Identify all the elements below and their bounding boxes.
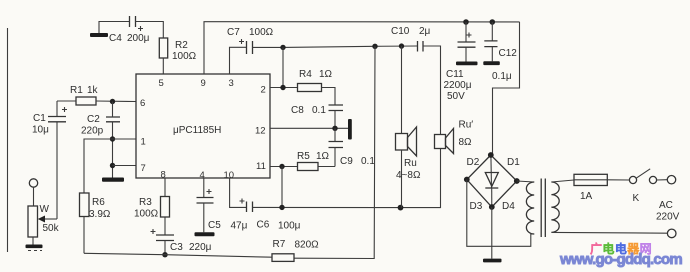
svg-text:100Ω: 100Ω — [249, 27, 274, 38]
capacitor C2 220p — [81, 102, 120, 178]
svg-text:R5: R5 — [297, 151, 310, 162]
svg-text:C9: C9 — [340, 156, 353, 167]
svg-text:1Ω: 1Ω — [316, 151, 330, 162]
resistor R5 1ohm — [297, 151, 335, 171]
svg-text:0.1: 0.1 — [312, 105, 326, 116]
wire — [423, 46, 441, 135]
wire — [57, 100, 76, 102]
ground — [483, 259, 502, 263]
node junction — [280, 85, 285, 90]
svg-text:4~8Ω: 4~8Ω — [396, 170, 421, 181]
svg-text:D4: D4 — [502, 201, 515, 212]
wire — [33, 187, 35, 206]
node junction pin1 — [110, 136, 115, 141]
resistor R7 820ohm — [272, 239, 319, 261]
wire — [281, 167, 283, 208]
node junction — [464, 177, 470, 183]
svg-text:820Ω: 820Ω — [295, 240, 320, 251]
capacitor C8 0.1 — [291, 105, 343, 128]
svg-text:D1: D1 — [507, 157, 520, 168]
svg-text:C7: C7 — [227, 27, 240, 38]
node junction — [489, 204, 495, 210]
svg-text:9: 9 — [201, 78, 206, 89]
capacitor C12 0.1u — [483, 22, 517, 82]
svg-text:12: 12 — [255, 126, 266, 137]
capacitor C10 2u — [391, 26, 431, 52]
resistor R4 1ohm — [298, 69, 333, 92]
ground bar pin12 — [348, 119, 352, 140]
speaker Ru 4~8ohm — [396, 127, 421, 208]
ground — [195, 232, 215, 236]
svg-text:C1: C1 — [33, 113, 46, 124]
capacitor C3 220u — [151, 217, 212, 255]
svg-text:C4: C4 — [109, 33, 122, 44]
svg-text:AC: AC — [659, 200, 673, 211]
wire pin2 — [270, 87, 298, 89]
resistor R6 3.9ohm — [80, 193, 111, 220]
wire — [491, 207, 493, 259]
node junction — [372, 44, 377, 49]
wire bridge left to secondary bottom — [467, 180, 531, 247]
svg-text:220μ: 220μ — [189, 242, 212, 253]
svg-text:D2: D2 — [467, 157, 480, 168]
svg-text:100Ω: 100Ω — [134, 209, 159, 220]
node AC terminal bottom — [667, 229, 676, 238]
diode bridge D1-D4 — [467, 155, 521, 212]
wire feedback vertical — [294, 46, 375, 258]
svg-text:2200μ: 2200μ — [444, 80, 472, 91]
node junction — [488, 152, 494, 158]
node AC terminal top — [656, 176, 680, 223]
wire pin11 — [270, 166, 298, 168]
wire pin7 — [113, 165, 137, 167]
capacitor C4 200u — [109, 16, 150, 44]
node junction — [332, 126, 337, 131]
capacitor C5 47u — [197, 189, 248, 232]
svg-text:1Ω: 1Ω — [319, 69, 333, 80]
svg-text:Ru: Ru — [404, 158, 417, 169]
wire pin10 — [230, 178, 247, 207]
svg-text:11: 11 — [256, 161, 266, 172]
svg-text:μPC1185H: μPC1185H — [173, 125, 221, 136]
svg-text:100μ: 100μ — [278, 221, 301, 232]
wire — [83, 217, 85, 254]
capacitor C9 0.1 — [329, 128, 376, 167]
resistor R3 100ohm — [134, 197, 170, 220]
node junction — [279, 164, 284, 169]
svg-text:6: 6 — [140, 98, 145, 109]
svg-text:5: 5 — [159, 78, 164, 89]
svg-text:50V: 50V — [447, 91, 465, 102]
svg-text:100Ω: 100Ω — [172, 51, 197, 62]
wire output node — [253, 46, 418, 47]
resistor R2 100ohm — [159, 38, 196, 62]
svg-text:0.1μ: 0.1μ — [492, 71, 512, 82]
wire output to speakers — [253, 149, 441, 208]
node junction — [280, 45, 285, 50]
svg-text:50k: 50k — [43, 223, 60, 234]
wire pin1 — [84, 139, 136, 193]
capacitor C1 10u — [32, 101, 67, 136]
wire pin12 — [270, 127, 348, 129]
watermark text — [590, 240, 652, 257]
svg-text:C8: C8 — [291, 105, 304, 116]
svg-text:3: 3 — [229, 78, 234, 89]
svg-text:220V: 220V — [656, 212, 680, 223]
capacitor C7 100 — [227, 27, 274, 54]
svg-text:2μ: 2μ — [419, 26, 431, 37]
wire — [322, 88, 336, 106]
svg-text:C6: C6 — [257, 220, 270, 231]
svg-text:8Ω: 8Ω — [459, 137, 473, 148]
svg-text:3.9Ω: 3.9Ω — [89, 209, 111, 220]
switch K — [629, 169, 667, 204]
wire — [282, 47, 284, 87]
svg-text:7: 7 — [141, 163, 146, 174]
svg-text:R2: R2 — [175, 40, 188, 51]
wire pin3 — [230, 47, 247, 74]
speaker Ru2 8ohm — [435, 120, 474, 154]
svg-text:C5: C5 — [208, 220, 221, 231]
wire pin6 — [96, 100, 136, 103]
potentiometer W 50k — [28, 204, 60, 237]
svg-text:C3: C3 — [170, 242, 183, 253]
svg-text:2: 2 — [261, 85, 266, 96]
svg-text:1A: 1A — [580, 191, 593, 202]
node junction — [399, 43, 404, 48]
node junction pin7 — [110, 163, 115, 168]
node input terminal — [29, 179, 37, 187]
node junction — [279, 205, 284, 210]
svg-text:Ru′: Ru′ — [459, 120, 474, 131]
node junction — [398, 205, 404, 211]
svg-text:C12: C12 — [499, 48, 518, 59]
svg-text:C2: C2 — [87, 114, 100, 125]
svg-text:R1: R1 — [70, 85, 83, 96]
svg-text:R3: R3 — [139, 197, 152, 208]
svg-text:W: W — [40, 204, 50, 215]
capacitor C11 2200u 50V — [444, 22, 478, 102]
node junction — [110, 99, 115, 104]
ground — [26, 245, 43, 251]
wire primary bottom — [551, 231, 667, 234]
svg-text:200μ: 200μ — [127, 33, 150, 44]
wire — [401, 46, 403, 133]
transformer T1 — [517, 179, 559, 238]
wire pin9 and V+ top rail — [204, 22, 520, 74]
node junction — [490, 19, 496, 25]
wire — [136, 22, 164, 39]
node junction — [162, 252, 167, 257]
wire — [56, 122, 58, 219]
svg-text:R4: R4 — [299, 69, 312, 80]
svg-text:1k: 1k — [87, 85, 99, 96]
svg-text:R7: R7 — [273, 239, 286, 250]
node junction — [463, 19, 469, 25]
wire — [99, 22, 130, 34]
svg-text:D3: D3 — [470, 201, 483, 212]
svg-text:C11: C11 — [446, 69, 464, 80]
svg-text:10μ: 10μ — [32, 125, 49, 136]
svg-text:10: 10 — [224, 170, 235, 181]
node junction — [514, 178, 520, 184]
wire feedback rail — [84, 253, 272, 257]
wire pin4 — [203, 178, 205, 198]
wire — [607, 179, 629, 181]
svg-text:R6: R6 — [92, 197, 105, 208]
wire pin8 — [164, 178, 166, 197]
ground — [90, 33, 108, 37]
resistor R1 1k — [70, 85, 99, 105]
svg-text:0.1: 0.1 — [361, 156, 375, 167]
svg-text:220p: 220p — [81, 126, 104, 137]
fuse 1A — [574, 174, 607, 202]
op-amp U1 uPC1185H — [136, 74, 270, 181]
svg-text:47μ: 47μ — [231, 221, 248, 232]
svg-text:C10: C10 — [391, 26, 410, 37]
svg-text:1: 1 — [141, 137, 146, 148]
wire rail to bridge — [493, 22, 520, 155]
wire primary top — [551, 180, 574, 182]
wire — [32, 237, 34, 245]
wire pin5 — [162, 58, 164, 74]
svg-text:K: K — [633, 193, 640, 204]
capacitor C6 100u — [240, 199, 301, 232]
ground — [102, 178, 124, 182]
